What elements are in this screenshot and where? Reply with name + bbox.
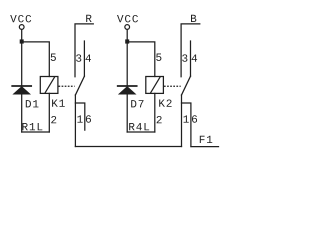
net label VCC (left) bbox=[10, 15, 16, 22]
pin label 6 (K1) bbox=[86, 115, 91, 122]
wire diode D7 cathode to VCC node bbox=[126, 44, 128, 85]
wire VCC node to coil K1 pin 5 bbox=[24, 42, 50, 77]
contact K1 pin 4 terminal bbox=[83, 41, 85, 76]
wire net B to contact K2 pin 3 bbox=[181, 24, 200, 77]
diode D7 bbox=[118, 85, 137, 87]
contact K1 movable arm bbox=[75, 76, 84, 95]
pin label 3 (K1) bbox=[76, 54, 81, 61]
wire diode D1 cathode to VCC node bbox=[21, 44, 23, 85]
relay coil K2 bbox=[146, 77, 164, 94]
pin label 5 (K2) bbox=[156, 54, 161, 61]
label K1 bbox=[52, 100, 58, 107]
wire D7 anode down bbox=[126, 94, 128, 132]
wire net R1L bottom bbox=[22, 131, 50, 133]
diode D1 bbox=[12, 85, 31, 87]
pin label 3 (K2) bbox=[182, 54, 187, 61]
pin label 2 (K1) bbox=[51, 116, 56, 123]
junction dot VCC node (left) bbox=[20, 39, 24, 43]
VCC pin circle (right) bbox=[125, 25, 130, 30]
dashed linkage K2 bbox=[164, 85, 181, 87]
wire rail K1 common to K2 common bbox=[75, 146, 181, 148]
pin label 2 (K2) bbox=[157, 116, 162, 123]
label D1 bbox=[26, 100, 31, 107]
wire coil K2 pin 2 down bbox=[154, 93, 156, 132]
contact K2 movable arm bbox=[182, 76, 191, 95]
VCC pin circle (left) bbox=[19, 25, 24, 30]
net label F1 bbox=[200, 136, 205, 143]
relay coil K1 bbox=[40, 77, 58, 94]
net label R4L bbox=[129, 123, 134, 130]
wire D1 anode down bbox=[21, 94, 23, 132]
net label VCC (right) bbox=[117, 15, 123, 22]
net label R1L bbox=[22, 123, 27, 130]
label K2 bbox=[159, 100, 165, 107]
wire VCC node to coil K2 pin 5 bbox=[129, 42, 155, 77]
net label R bbox=[86, 15, 91, 22]
wire rail K2 pin 6 to net F1 bbox=[191, 146, 219, 148]
pin label 1 (K1) bbox=[77, 115, 82, 122]
wire VCC stem (right) bbox=[126, 30, 128, 40]
dashed linkage K1 bbox=[59, 85, 75, 87]
wire contact K1 pin 6 branch bbox=[75, 103, 84, 130]
wire contact K2 pin 6 branch bbox=[182, 103, 191, 147]
wire net R4L bottom bbox=[127, 131, 155, 133]
wire contact K2 common pin 1 down bbox=[181, 95, 183, 147]
pin label 1 (K2) bbox=[184, 115, 189, 122]
pin label 4 (K2) bbox=[192, 54, 197, 61]
contact K2 pin 4 terminal bbox=[190, 41, 192, 76]
label D7 bbox=[131, 100, 136, 107]
wire net R to contact K1 pin 3 bbox=[75, 24, 93, 77]
pin label 6 (K2) bbox=[192, 115, 197, 122]
wire VCC stem (left) bbox=[21, 30, 23, 40]
junction dot VCC node (right) bbox=[125, 39, 129, 43]
wire coil K1 pin 2 down bbox=[48, 93, 50, 132]
wire contact K1 common pin 1 down bbox=[74, 95, 76, 147]
pin label 4 (K1) bbox=[86, 54, 91, 61]
pin label 5 (K1) bbox=[51, 54, 56, 61]
net label B bbox=[191, 15, 196, 22]
